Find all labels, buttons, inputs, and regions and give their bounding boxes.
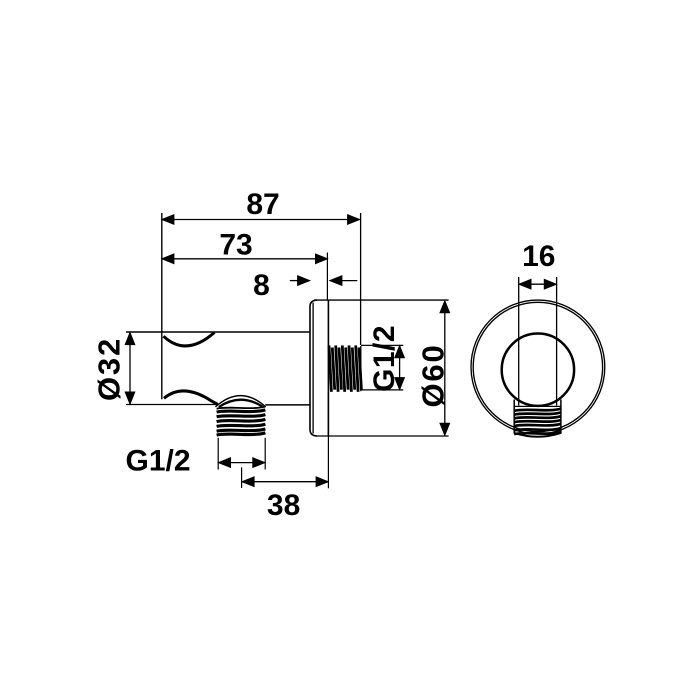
svg-text:Ø32: Ø32 xyxy=(92,337,127,401)
front view outer circle (double line) xyxy=(471,300,605,434)
dimension 38 xyxy=(242,392,329,522)
svg-text:73: 73 xyxy=(219,229,252,262)
svg-text:G1/2: G1/2 xyxy=(126,445,191,478)
svg-text:87: 87 xyxy=(246,188,279,221)
cup opening top curve xyxy=(164,332,215,346)
cup opening bottom curve xyxy=(164,391,218,404)
wall plate (escutcheon) side view xyxy=(310,300,328,436)
dimension 73 xyxy=(162,229,328,300)
dimension Ø32 (cup opening) xyxy=(92,333,135,404)
plate bottom edge + Ø60 bottom extension line xyxy=(316,435,449,437)
dimension Ø60 (plate diameter) xyxy=(416,301,451,436)
hose connector collar arch (inner) xyxy=(219,400,263,407)
bottom hose thread G1/2 (side view) xyxy=(217,407,266,436)
svg-text:G1/2: G1/2 xyxy=(368,325,401,392)
holder bottom outline (right segment to plate) xyxy=(265,404,310,406)
holder body top outline xyxy=(126,331,310,333)
dimension 87 xyxy=(162,188,361,345)
holder bottom outline (left segment = Ø32 extension) xyxy=(126,404,218,406)
holder cup front rim (left vertical edge) + 87/73 left extension xyxy=(161,213,163,399)
dimension line for hose thread width xyxy=(218,438,265,470)
svg-text:Ø60: Ø60 xyxy=(416,344,451,408)
svg-text:16: 16 xyxy=(522,240,555,273)
front view bottom thread xyxy=(514,400,561,437)
hose connector collar arch (outer) xyxy=(215,396,265,407)
dimension G1/2 (wall thread) xyxy=(361,325,404,392)
dimension 8 (plate thickness) xyxy=(253,269,357,302)
front view holder cup circle xyxy=(502,334,574,406)
svg-text:38: 38 xyxy=(267,489,300,522)
dimension 16 xyxy=(519,240,557,406)
plate top edge + Ø60 top extension line xyxy=(314,299,449,301)
svg-text:8: 8 xyxy=(253,269,270,302)
wall connection thread G1/2 (side view, hatched) xyxy=(329,345,361,391)
